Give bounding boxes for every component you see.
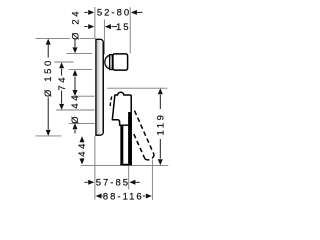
svg-text:44: 44 bbox=[77, 141, 88, 157]
svg-text:119: 119 bbox=[155, 113, 166, 136]
svg-text:88-116: 88-116 bbox=[103, 191, 144, 202]
svg-text:Ø 44: Ø 44 bbox=[70, 93, 81, 124]
svg-text:15: 15 bbox=[116, 22, 131, 33]
svg-text:Ø 24: Ø 24 bbox=[71, 9, 82, 40]
svg-text:57-85: 57-85 bbox=[96, 178, 130, 189]
svg-text:74: 74 bbox=[57, 75, 68, 91]
svg-text:52-80: 52-80 bbox=[97, 8, 131, 19]
svg-text:Ø 150: Ø 150 bbox=[43, 58, 54, 97]
